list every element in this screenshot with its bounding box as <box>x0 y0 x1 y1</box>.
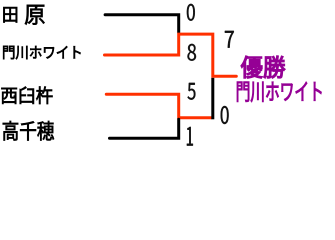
champion name: 門川ホワイト <box>237 82 322 102</box>
champion caption: 優勝 (winner) <box>241 56 285 78</box>
score: 高千穂 1 <box>187 127 193 146</box>
wire: 西臼杵 winner path (red): team line, drop, semifinal-2 stub <box>106 94 211 117</box>
wire: 門川ホワイト winner path (red): team line, rise, semifinal-1 stub, drop to final, champion line <box>105 34 237 76</box>
score: 西臼杵 5 <box>188 83 196 100</box>
score: final 西臼杵 0 <box>221 106 229 124</box>
score: 門川ホワイト 8 <box>188 44 197 61</box>
team label: 高千穂 (Takachiho) <box>3 121 54 141</box>
score: 田原 0 <box>187 4 195 21</box>
team label: 門川ホワイト (Kadogawa White) <box>3 46 80 59</box>
wire: 田原 line + upper bracket drop (black, loser side of semifinal 1) <box>105 15 179 33</box>
team label: 田原 (Tahara) <box>3 5 44 25</box>
wire: final drop, loser side (black, 西臼杵 side of final) <box>211 78 214 120</box>
team label: 西臼杵 (Nishiusuki) <box>1 87 52 105</box>
score: final 門川ホワイト 7 <box>225 31 234 48</box>
wire: 高千穂 line + lower bracket rise (black, loser side of semifinal 2) <box>110 119 179 138</box>
